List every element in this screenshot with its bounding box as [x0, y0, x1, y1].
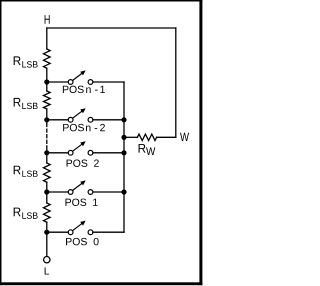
resistor R_W: [137, 134, 156, 140]
wire: bus vertical: [123, 82, 125, 232]
wire: R3 to node POS 1: [46, 182, 48, 192]
wire: node POS 2 to R3: [46, 153, 48, 163]
wire: POS 0 to switch: [47, 231, 68, 233]
resistor R_LSB 4: [44, 203, 51, 222]
wire: H node top wire to right: [47, 27, 176, 29]
resistor R_LSB 1: [44, 49, 51, 68]
terminal L circle: [44, 257, 50, 263]
node POS n-2 tap: [44, 117, 49, 122]
label W: [180, 133, 189, 141]
junction dots on ladder: [44, 79, 126, 234]
wire: switch POS 1 to bus: [93, 191, 124, 193]
resistor R_LSB 2: [44, 91, 51, 109]
label POS n - 1: [63, 86, 105, 93]
wire: POS n-1 to switch: [47, 81, 68, 83]
switch POS 1: [68, 180, 93, 194]
switch POS n-2: [68, 108, 93, 122]
wire: switch POS 2 to bus: [93, 152, 124, 154]
wire: POS n-2 to switch: [47, 119, 68, 121]
junction bus/POS 2: [121, 150, 126, 155]
label POS 0: [66, 238, 99, 245]
node POS 2 tap: [44, 150, 49, 155]
switch POS 0: [68, 221, 93, 235]
wire: bus to R_W: [124, 136, 137, 138]
wire: switch POS n-2 to bus: [93, 119, 124, 121]
node POS n-1 tap: [44, 79, 49, 84]
wire: POS 2 to switch: [47, 152, 68, 154]
label POS 2: [67, 159, 99, 166]
junction bus/POS n-2: [121, 117, 126, 122]
wire: switch POS n-1 to bus: [93, 81, 124, 83]
wire: R4 to node POS 0: [46, 222, 48, 232]
junction bus/POS 1: [121, 189, 126, 194]
switch POS 2: [68, 141, 93, 155]
wire: H node down to R1: [46, 28, 48, 49]
node POS 1 tap: [44, 189, 49, 194]
wire: node POS 1 to R4: [46, 192, 48, 203]
wire: dashed ladder segment: [46, 120, 48, 123]
node POS 0 tap: [44, 230, 49, 235]
wire: R2 to node POS n-2: [46, 109, 48, 120]
wire: dashed to node POS 2: [46, 150, 48, 153]
label L: [45, 267, 49, 274]
label POS n - 2: [63, 124, 105, 131]
wire: node POS 0 down to L terminal: [46, 232, 48, 256]
label R_LSB 2: [14, 98, 38, 109]
label R_W: [139, 144, 156, 155]
label R_LSB 4: [14, 208, 38, 219]
label H: [45, 15, 50, 24]
wire: R_W to W terminal: [157, 136, 176, 138]
border frame: [0, 0, 202, 285]
switch POS n-1: [68, 70, 93, 84]
wire: POS 1 to switch: [47, 191, 68, 193]
label R_LSB 3: [14, 166, 38, 177]
wire: switch POS 0 to bus: [93, 231, 124, 233]
label POS 1: [65, 199, 97, 206]
wire: R1 to node POS n-1: [46, 68, 48, 82]
junction bus/R_W: [121, 135, 126, 140]
label R_LSB 1: [14, 56, 38, 67]
wire: right vertical down to W: [175, 28, 177, 137]
wire: node to R2: [46, 82, 48, 91]
resistor R_LSB 3: [44, 163, 51, 182]
